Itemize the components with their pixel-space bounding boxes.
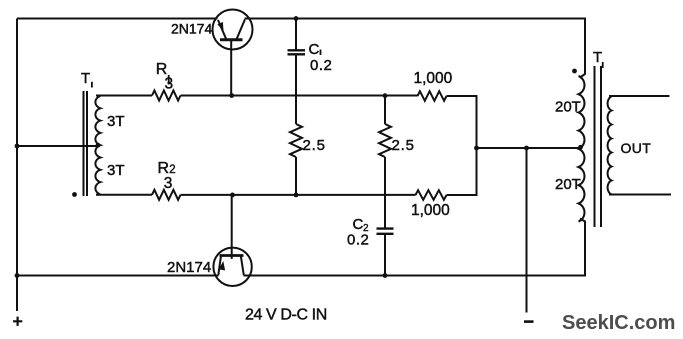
label + terminal [13, 317, 22, 326]
svg-text:2N174: 2N174 [167, 259, 211, 276]
wire: OUT bottom lead [609, 194, 671, 196]
svg-text:3: 3 [165, 76, 174, 93]
wire: Q1 base lead down to R1 node [230, 41, 232, 96]
svg-text:20T: 20T [555, 99, 581, 116]
svg-text:3T: 3T [107, 162, 125, 179]
svg-text:2.5: 2.5 [303, 137, 326, 154]
capacitor C2 0.2 [377, 229, 394, 234]
wire: 2.5 resistor to R2 wire [295, 157, 297, 195]
node: C1 on top rail [294, 16, 299, 21]
svg-text:0.2: 0.2 [347, 231, 369, 248]
svg-text:2: 2 [169, 164, 175, 176]
node: left transformer center tap [96, 143, 101, 148]
resistor 2.5 (left branch) [290, 124, 302, 157]
resistor R1 3 ohm [152, 91, 181, 101]
transformer T1 right: core [595, 66, 602, 227]
node: top of 2.5/C2 branch [383, 93, 388, 98]
resistor 1,000 (top) [418, 91, 447, 101]
wire: bottom rail left (+ rail to Q2 emitter) [17, 275, 219, 277]
wire: left center-tap wire [17, 145, 98, 147]
resistor R2 3 ohm [152, 190, 181, 200]
svg-text:3T: 3T [107, 113, 125, 130]
wire: bottom rail right (Q2 collector to T1 primary bottom) [244, 219, 586, 276]
svg-text:1,000: 1,000 [411, 202, 450, 219]
node: Q2 base junction [230, 193, 235, 198]
svg-text:20T: 20T [555, 176, 581, 193]
transformer T1 right: 20T+20T primary winding [579, 76, 585, 222]
wire: coil bottom to R2 [96, 194, 152, 196]
node: minus branch junction [524, 146, 529, 151]
wire: coil top to R1 [96, 95, 152, 97]
wire: left supply rail (+) [16, 19, 18, 312]
wire: R1 to top 1,000 resistor [181, 95, 418, 97]
node: Q1 base junction [229, 93, 234, 98]
svg-text:OUT: OUT [621, 140, 652, 156]
wire: top rail to C1 [295, 19, 297, 51]
wire: top 1,000 to right vertical [447, 96, 477, 195]
resistor 2.5 (right branch) [379, 124, 391, 157]
svg-text:0.2: 0.2 [310, 57, 332, 74]
wire: R2 to bottom 1,000 resistor [181, 194, 416, 196]
svg-text:24 V D-C IN: 24 V D-C IN [245, 307, 327, 324]
polarity dot right transformer [572, 69, 577, 74]
wire: OUT top lead [609, 95, 670, 97]
wire: R1 wire down to 2.5 resistor (right branch) [384, 96, 386, 124]
svg-text:2N174: 2N174 [171, 20, 212, 36]
svg-text:T: T [593, 49, 602, 66]
svg-text:3: 3 [164, 175, 173, 192]
node: T1 right primary center tap [578, 145, 583, 150]
transistor Q1 2N174 (top, PNP) [213, 10, 253, 50]
node: feedback junction to center tap [474, 146, 479, 151]
wire: Q2 base lead up to R2 node [231, 195, 233, 259]
wire: C2 to bottom rail [384, 234, 386, 276]
transistor Q2 2N174 (bottom, PNP) [213, 248, 251, 286]
wire: minus supply lead (crosses bottom rail, no connection) [526, 148, 528, 313]
svg-text:2.5: 2.5 [392, 137, 415, 154]
transformer T1 right: secondary winding [608, 97, 612, 195]
polarity dot left transformer [72, 192, 77, 197]
wire: 2.5 down across R2 wire to C2 [384, 157, 386, 229]
transformer T1 left: core [84, 91, 88, 196]
svg-text:1,000: 1,000 [414, 70, 453, 87]
wire: feedback junction to T1 right center tap [477, 147, 582, 149]
resistor 1,000 (bottom) [416, 190, 447, 200]
capacitor C1 0.2 [288, 50, 306, 54]
node: junction + rail / bottom rail [15, 273, 20, 278]
svg-text:C: C [309, 41, 320, 58]
node: junction + rail / center-tap [15, 144, 20, 149]
transformer T1 left: 3T+3T winding [95, 96, 100, 194]
label - terminal [524, 320, 534, 323]
wire: C1 down across R1 wire to 2.5 resistor [295, 54, 297, 124]
wire: top rail right (Q1 collector to T1 primary top) [245, 19, 586, 78]
wire: top rail left (+ rail to Q1 emitter) [17, 18, 218, 20]
svg-text:SeekIC.com: SeekIC.com [562, 312, 675, 334]
node: C2 on bottom rail [383, 273, 388, 278]
node: bottom of C1/2.5 branch [294, 193, 299, 198]
svg-text:T: T [81, 70, 90, 87]
